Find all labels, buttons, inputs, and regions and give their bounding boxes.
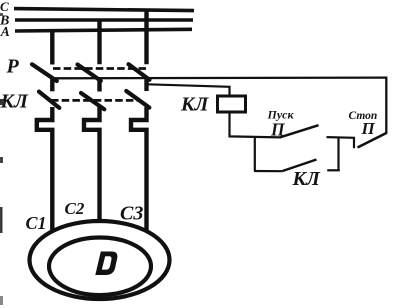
wire pole3 upper (from bus C down to switch P) <box>144 10 148 65</box>
wire coil bottom to start button <box>230 112 282 137</box>
motor inner circle <box>49 237 151 295</box>
svg-text:КЛ: КЛ <box>180 94 210 116</box>
stop button left terminal stub <box>353 138 355 148</box>
switch P linkage (dashed) <box>53 67 146 70</box>
stop button blade <box>358 133 387 148</box>
contactor KL blade pole2 <box>81 93 104 109</box>
thermal heater + wire pole1 down to motor <box>37 107 53 230</box>
switch P blade pole2 <box>78 65 101 81</box>
control wire W2 (from pole3 after P to coil KL) <box>148 84 230 96</box>
contactor KL linkage (dashed) <box>51 99 141 102</box>
svg-text:А: А <box>0 24 10 39</box>
switch P blade pole3 <box>129 64 150 80</box>
scan edge artifacts <box>0 13 3 16</box>
wire pole2 middle stub <box>97 78 101 92</box>
wire pole3 middle stub <box>144 77 148 92</box>
wire pole1 middle stub <box>50 77 54 91</box>
bus B (middle phase bus) <box>15 18 193 21</box>
svg-text:П: П <box>361 119 376 138</box>
control wire W1 (from pole1 after P to right side) <box>55 78 386 134</box>
contactor KL blade pole3 <box>126 91 149 108</box>
svg-text:С1: С1 <box>26 213 47 233</box>
svg-text:КЛ: КЛ <box>0 91 29 113</box>
contactor KL blade pole1 <box>39 92 59 108</box>
KL auxiliary contact blade <box>283 160 317 172</box>
wire bottom right fixed terminal of KL aux <box>327 169 340 171</box>
coil KL rectangle <box>218 96 246 112</box>
bus C (top phase bus) <box>14 9 194 11</box>
motor outer circle <box>30 221 170 299</box>
start button Pusk blade <box>281 125 319 137</box>
wire pole1 upper (from bus A down to switch P) <box>50 31 54 65</box>
svg-text:КЛ: КЛ <box>292 168 322 190</box>
wire right fixed terminal of Pusk to Stop <box>327 136 356 139</box>
wire left terminal of KL aux <box>254 170 283 172</box>
svg-text:С2: С2 <box>65 199 85 218</box>
thermal heater + wire pole3 down to motor <box>131 107 147 231</box>
thermal heater + wire pole2 down to motor <box>84 107 100 223</box>
switch P blade pole1 <box>32 64 57 81</box>
svg-text:Р: Р <box>6 56 20 78</box>
wire branch down to KL aux contact <box>254 137 256 171</box>
bus A (bottom phase bus) <box>15 29 192 31</box>
wire pole2 upper (from bus B down to switch P) <box>97 20 101 64</box>
svg-text:С: С <box>0 0 9 14</box>
motor label D <box>95 252 117 276</box>
wire vertical joining parallel branches right side <box>337 137 339 170</box>
